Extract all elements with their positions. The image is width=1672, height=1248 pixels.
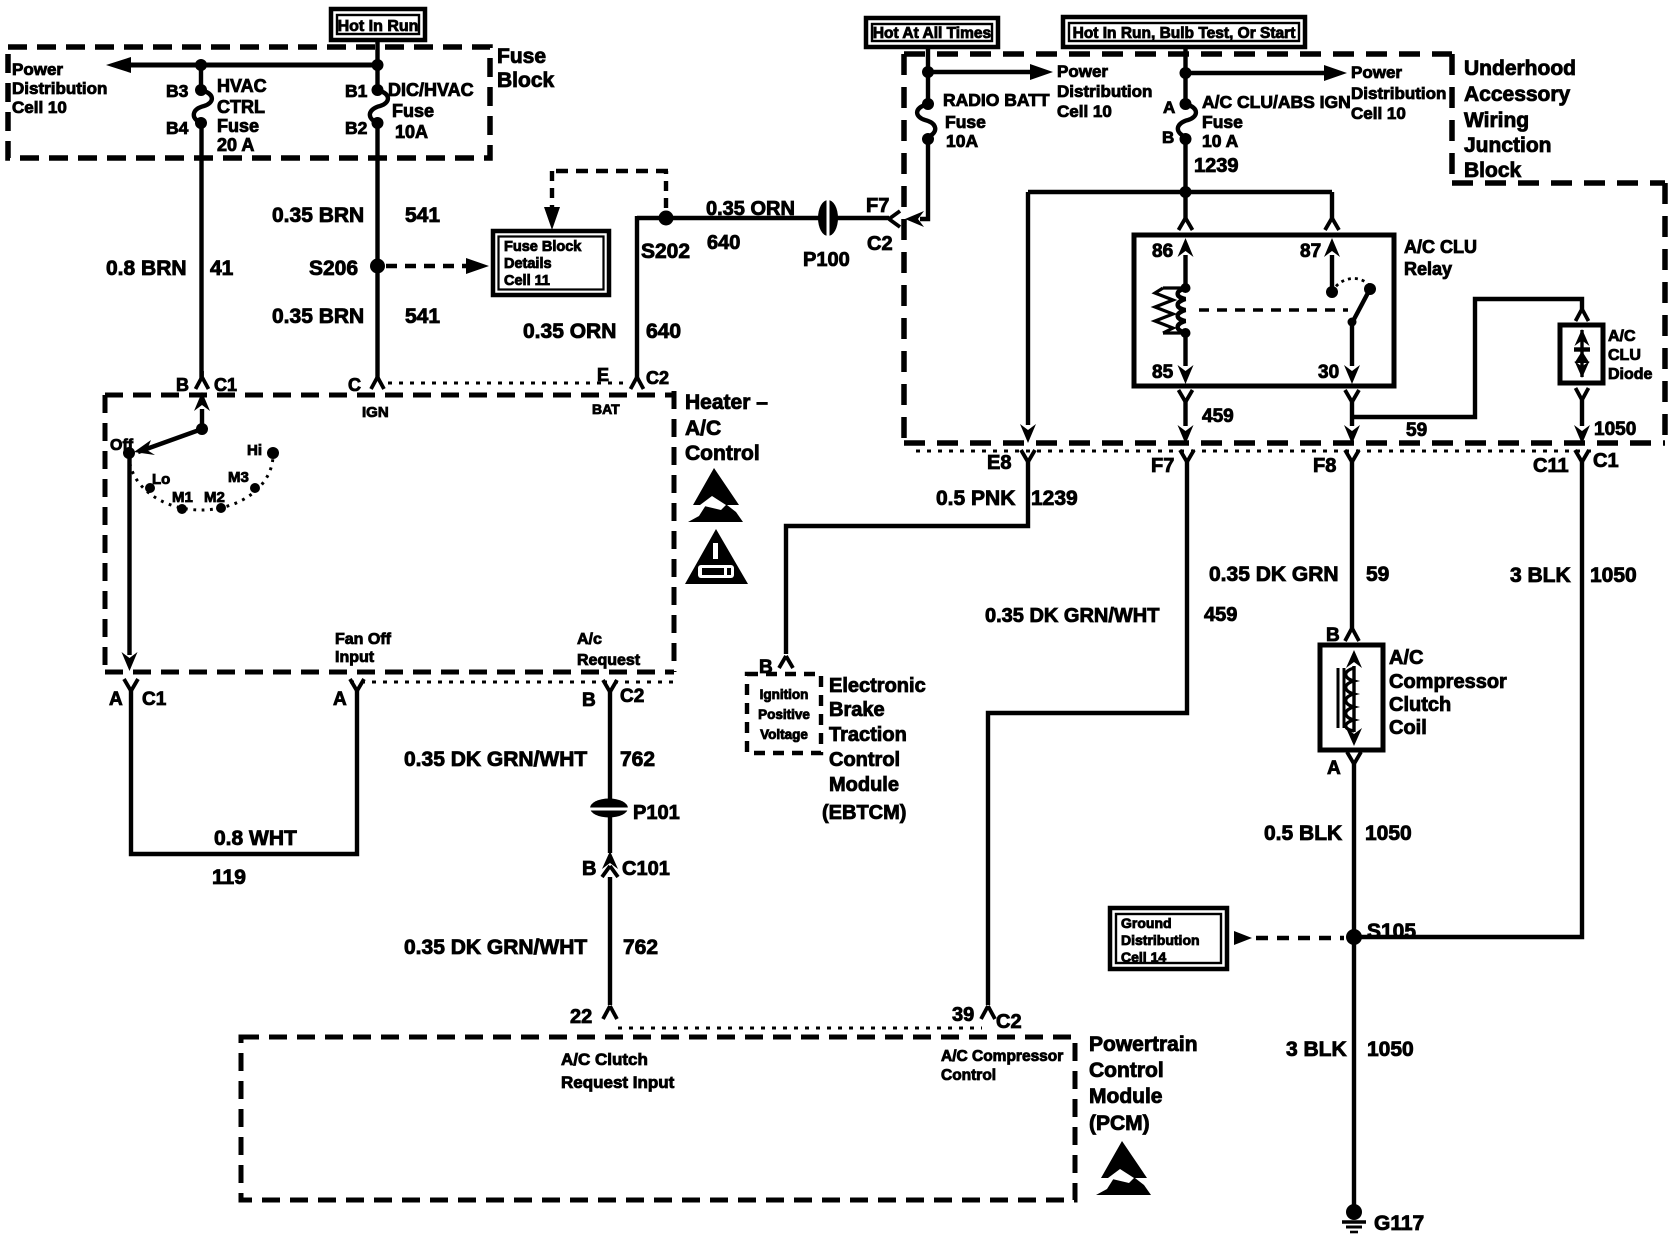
svg-text:Clutch: Clutch xyxy=(1389,694,1451,716)
svg-text:C11: C11 xyxy=(1533,455,1569,477)
switch position arc (dotted) xyxy=(129,455,273,510)
label A/C Clutch Request Input xyxy=(561,1050,675,1092)
relay pin 87 arrow into box xyxy=(1300,238,1340,292)
fuse A/C CLU/ABS IGN 10A xyxy=(1162,92,1351,151)
fuse HVAC CTRL 20A (B3-B4) xyxy=(166,65,267,155)
arrow to Power Distribution Cell 10 (right) xyxy=(1186,63,1447,123)
label Heater A/C Control xyxy=(685,391,768,465)
fuse RADIO BATT 10A xyxy=(917,90,1050,151)
svg-text:B: B xyxy=(1162,128,1174,147)
svg-text:30: 30 xyxy=(1318,362,1339,383)
label 0.35 DK GRN 59 xyxy=(1209,563,1389,586)
svg-text:C2: C2 xyxy=(620,686,644,707)
svg-text:3 BLK: 3 BLK xyxy=(1286,1038,1347,1061)
svg-text:Lo: Lo xyxy=(152,471,170,488)
svg-text:Power: Power xyxy=(12,60,63,79)
svg-text:G117: G117 xyxy=(1374,1212,1424,1235)
svg-text:C1: C1 xyxy=(142,689,167,710)
svg-text:Hot In Run: Hot In Run xyxy=(338,18,419,35)
relay pin 86 arrow into box xyxy=(1152,238,1194,287)
label Fuse Block xyxy=(497,45,555,92)
label A/c Request xyxy=(577,631,641,669)
fan switch wire from B C1 down to pivot xyxy=(200,409,204,429)
svg-text:Distribution: Distribution xyxy=(1121,932,1200,948)
inline connector C101 xyxy=(582,851,670,880)
label 0.35 ORN 640 (horizontal wire) xyxy=(706,198,795,254)
svg-text:85: 85 xyxy=(1152,362,1174,383)
svg-text:0.35 BRN: 0.35 BRN xyxy=(272,204,364,227)
svg-text:0.35 DK GRN/WHT: 0.35 DK GRN/WHT xyxy=(404,936,587,959)
wire 1050 from diode to C11 C1 with arrow xyxy=(1574,400,1636,444)
svg-text:Cell 10: Cell 10 xyxy=(1351,104,1406,123)
connector B C2 (fork) xyxy=(582,680,644,711)
fan switch pivot xyxy=(196,423,208,435)
splice S202 xyxy=(641,211,690,264)
label A/C Compressor Control xyxy=(941,1048,1063,1084)
label 0.5 PNK 1239 xyxy=(936,487,1078,510)
svg-text:M1: M1 xyxy=(172,489,193,506)
ESD sensitive symbol xyxy=(688,468,743,522)
label Fan Off Input xyxy=(335,631,392,666)
label Electronic Brake Traction Control Module (EBTCM) xyxy=(822,675,926,824)
svg-text:Wiring: Wiring xyxy=(1464,109,1529,132)
svg-text:Cell 10: Cell 10 xyxy=(12,98,67,117)
A/C CLU Diode xyxy=(1560,325,1653,383)
svg-text:Control: Control xyxy=(829,749,900,771)
svg-text:0.35 BRN: 0.35 BRN xyxy=(272,305,364,328)
svg-text:Request Input: Request Input xyxy=(561,1073,675,1092)
svg-text:RADIO BATT: RADIO BATT xyxy=(943,90,1050,110)
fuse DIC/HVAC 10A (B1-B2) xyxy=(345,65,474,142)
arrow to Power Distribution Cell 10 (left) xyxy=(928,62,1152,121)
svg-text:E: E xyxy=(597,365,609,385)
svg-text:C1: C1 xyxy=(1593,450,1619,472)
svg-text:C2: C2 xyxy=(867,233,893,255)
svg-text:Block: Block xyxy=(497,69,555,92)
svg-text:Diode: Diode xyxy=(1608,366,1653,383)
svg-text:Module: Module xyxy=(829,774,899,796)
svg-text:BAT: BAT xyxy=(592,401,620,417)
svg-text:A/C Clutch: A/C Clutch xyxy=(561,1050,648,1069)
svg-text:87: 87 xyxy=(1300,241,1321,262)
svg-text:(EBTCM): (EBTCM) xyxy=(822,802,906,824)
Hot In Run, Bulb Test, Or Start header box xyxy=(1063,17,1305,47)
svg-text:B2: B2 xyxy=(345,118,368,138)
svg-text:1050: 1050 xyxy=(1367,1038,1414,1061)
svg-text:Cell 11: Cell 11 xyxy=(504,273,550,289)
svg-text:C101: C101 xyxy=(622,858,670,880)
node: junction dot at HVAC fuse feed xyxy=(195,59,207,71)
svg-text:0.35 DK GRN/WHT: 0.35 DK GRN/WHT xyxy=(404,748,587,771)
svg-text:A: A xyxy=(333,689,347,710)
svg-text:Fuse Block: Fuse Block xyxy=(504,239,582,255)
svg-text:0.35 ORN: 0.35 ORN xyxy=(523,320,616,343)
svg-text:640: 640 xyxy=(646,320,681,343)
caution note symbol xyxy=(685,529,748,584)
A/C Compressor Clutch Coil box xyxy=(1320,645,1383,750)
pass-through grommet P100 xyxy=(803,199,850,271)
connector F7 C2 (sideways fork) xyxy=(866,195,900,255)
svg-text:F7: F7 xyxy=(866,195,889,217)
svg-text:Distribution: Distribution xyxy=(1057,82,1152,101)
svg-text:DIC/HVAC: DIC/HVAC xyxy=(388,80,474,100)
svg-text:B3: B3 xyxy=(166,81,189,101)
fork above A/C CLU diode xyxy=(1576,309,1589,321)
label 3 BLK 1050 (lower) xyxy=(1286,1038,1414,1061)
svg-text:Powertrain: Powertrain xyxy=(1089,1033,1198,1056)
svg-text:Fuse: Fuse xyxy=(1202,112,1243,132)
svg-text:A/C: A/C xyxy=(1389,647,1423,669)
connector face dotted line (bottom) xyxy=(350,681,674,684)
svg-text:Hi: Hi xyxy=(247,442,262,459)
svg-text:Distribution: Distribution xyxy=(12,79,107,98)
svg-text:Fuse: Fuse xyxy=(945,112,986,132)
wire stem to relay 86 xyxy=(1183,192,1187,218)
connector B into EBTCM (fork) xyxy=(759,656,793,678)
svg-text:0.8 BRN: 0.8 BRN xyxy=(106,257,187,280)
svg-text:Underhood: Underhood xyxy=(1464,57,1576,80)
svg-text:S202: S202 xyxy=(641,240,690,263)
dashed reference arrow Ground Distribution to S105 xyxy=(1234,931,1344,945)
svg-text:C2: C2 xyxy=(646,368,669,388)
svg-text:0.35 ORN: 0.35 ORN xyxy=(706,198,795,220)
wire 459 from relay 85 to F7 with arrow xyxy=(1178,402,1234,444)
connector face dotted line (bottom of junction block) xyxy=(916,450,1592,453)
wire: 0.35 BRN 541 from B2 down to C xyxy=(375,123,379,379)
dashed reference path from S202 to Fuse Block Details box xyxy=(544,171,668,230)
svg-text:Hot In Run, Bulb Test, Or Star: Hot In Run, Bulb Test, Or Start xyxy=(1073,25,1296,42)
wire 0.5 PNK 1239 from E8 to EBTCM B xyxy=(786,462,1028,654)
svg-text:A: A xyxy=(109,689,123,710)
svg-text:119: 119 xyxy=(212,866,246,889)
wire 0.8 WHT 119 loop A C1 to A xyxy=(131,691,357,854)
fork below diode xyxy=(1576,388,1589,400)
svg-text:B1: B1 xyxy=(345,81,368,101)
svg-text:10 A: 10 A xyxy=(1202,131,1239,151)
svg-text:S105: S105 xyxy=(1367,920,1416,943)
wire 0.35 DK GRN 59 from F8 down to coil B xyxy=(1350,462,1354,628)
wire: Hot At All Times stem to RADIO BATT fuse xyxy=(926,45,930,104)
wire 1239 branch down to E8 with arrow xyxy=(1020,192,1036,443)
label Powertrain Control Module (PCM) xyxy=(1089,1033,1198,1135)
label 0.35 DK GRN/WHT 762 (upper) xyxy=(404,748,655,771)
label 0.35 DK GRN/WHT 459 xyxy=(985,604,1237,627)
svg-text:C1: C1 xyxy=(214,375,237,395)
fork below relay pin 85 xyxy=(1179,390,1193,402)
svg-text:CLU: CLU xyxy=(1608,347,1641,364)
svg-text:Block: Block xyxy=(1464,159,1522,182)
svg-text:M3: M3 xyxy=(228,469,249,486)
relay A/C CLU box xyxy=(1134,235,1394,386)
connector face dotted line C1 (top) xyxy=(388,382,626,385)
svg-text:Power: Power xyxy=(1351,63,1402,82)
svg-text:B4: B4 xyxy=(166,118,189,138)
svg-text:0.5 BLK: 0.5 BLK xyxy=(1264,822,1342,845)
connector C (fork) xyxy=(348,371,389,421)
svg-text:1050: 1050 xyxy=(1594,419,1636,440)
wire: 0.8 BRN 41 from B4 down to B C1 xyxy=(199,123,203,379)
svg-text:A: A xyxy=(1163,98,1175,117)
svg-text:Accessory: Accessory xyxy=(1464,83,1571,106)
svg-text:C2: C2 xyxy=(996,1011,1022,1033)
label 0.35 BRN 541 (upper) xyxy=(272,204,440,227)
connector F7 (fork below boundary) xyxy=(1151,450,1194,477)
svg-text:59: 59 xyxy=(1366,563,1389,586)
svg-text:59: 59 xyxy=(1406,420,1427,441)
svg-text:Details: Details xyxy=(504,256,552,272)
svg-text:A/c: A/c xyxy=(577,631,602,648)
wire: Hot In Run Bulb Test stem to A/C CLU/ABS IGN fuse xyxy=(1183,45,1187,104)
svg-text:541: 541 xyxy=(405,204,440,227)
relay pin 30 wire and arrow out of box xyxy=(1318,322,1360,384)
label A/C CLU Relay xyxy=(1404,237,1477,279)
svg-text:Power: Power xyxy=(1057,62,1108,81)
wire 0.35 DK GRN/WHT 762 from B C2 down to P101 xyxy=(608,692,612,800)
svg-text:Control: Control xyxy=(1089,1059,1164,1082)
wire from RADIO BATT fuse down to F7 C2 xyxy=(920,139,928,219)
svg-text:Electronic: Electronic xyxy=(829,675,926,697)
svg-text:Input: Input xyxy=(335,649,375,666)
svg-text:Positive: Positive xyxy=(758,707,810,722)
wire 0.35 ORN 640 horizontal through P100 xyxy=(637,216,889,220)
connector A fork below coil xyxy=(1327,752,1361,779)
svg-text:1239: 1239 xyxy=(1194,155,1239,177)
svg-text:F7: F7 xyxy=(1151,455,1174,477)
contact M3 xyxy=(228,469,260,493)
label A/C Compressor Clutch Coil xyxy=(1389,647,1507,739)
wire from Off contact down to A C1 with arrow xyxy=(122,455,138,671)
svg-text:Coil: Coil xyxy=(1389,717,1427,739)
svg-text:B: B xyxy=(582,690,596,711)
connector E8 (fork below boundary) xyxy=(987,450,1035,474)
wire: top feed rail with left arrow to Power Distribution xyxy=(106,57,378,73)
Ignition Positive Voltage dashed boxlet xyxy=(747,674,821,753)
svg-text:S206: S206 xyxy=(309,257,358,280)
svg-text:B: B xyxy=(582,858,596,880)
connector B fork above coil xyxy=(1326,625,1359,646)
connector B C1 (fork) xyxy=(176,371,237,395)
underhood junction block dashed outline xyxy=(904,54,1665,443)
svg-text:41: 41 xyxy=(210,257,234,280)
clutch coil internals (arrow in, coil, arrow out) xyxy=(1338,650,1362,746)
svg-text:0.5 PNK: 0.5 PNK xyxy=(936,487,1015,510)
ESD sensitive symbol (PCM) xyxy=(1096,1141,1151,1195)
svg-text:Voltage: Voltage xyxy=(760,727,808,742)
connector pin 22 (fork into PCM) xyxy=(570,1006,617,1028)
label 0.5 BLK 1050 xyxy=(1264,822,1412,845)
svg-text:Hot At All Times: Hot At All Times xyxy=(873,25,991,42)
wire 1050 from C11 C1 down and over to S105 xyxy=(1354,462,1582,937)
label 3 BLK 1050 (upper) xyxy=(1510,564,1637,587)
wire P101 to C101 xyxy=(608,816,612,853)
svg-text:M2: M2 xyxy=(204,489,225,506)
fan switch blade to Off xyxy=(134,429,202,455)
svg-text:(PCM): (PCM) xyxy=(1089,1112,1150,1135)
relay coil (inductor with parallel resistor) xyxy=(1155,283,1191,338)
ground G117 xyxy=(1342,1204,1424,1235)
fuse block dashed box xyxy=(8,47,490,158)
label Power Distribution Cell 10 xyxy=(12,60,107,117)
connector A C1 (fork, below box) xyxy=(109,679,167,710)
dashed reference arrow S206 to Fuse Block Details xyxy=(386,258,489,274)
label Underhood Accessory Wiring Junction Block xyxy=(1464,57,1576,182)
svg-text:F8: F8 xyxy=(1313,455,1336,477)
heater box dashed outline xyxy=(105,391,674,672)
fork below relay pin 30 xyxy=(1345,390,1359,402)
svg-text:Traction: Traction xyxy=(829,724,907,746)
svg-text:A: A xyxy=(1327,758,1341,779)
svg-text:HVAC: HVAC xyxy=(217,76,267,96)
wire 1239 branch down to relay 87 xyxy=(1330,192,1334,218)
svg-text:Cell 14: Cell 14 xyxy=(1121,949,1166,965)
svg-text:Ignition: Ignition xyxy=(760,687,809,702)
svg-text:C: C xyxy=(348,375,361,395)
label 0.35 DK GRN/WHT 762 (lower) xyxy=(404,936,658,959)
contact M2 xyxy=(204,489,226,513)
svg-text:Brake: Brake xyxy=(829,699,885,721)
svg-text:A/C CLU/ABS IGN: A/C CLU/ABS IGN xyxy=(1202,92,1351,112)
Hot In Run header box xyxy=(331,9,425,40)
svg-text:P101: P101 xyxy=(633,802,680,824)
svg-text:Cell 10: Cell 10 xyxy=(1057,102,1112,121)
splice S206 xyxy=(309,257,385,280)
svg-text:762: 762 xyxy=(620,748,655,771)
svg-text:Fuse: Fuse xyxy=(497,45,546,68)
svg-text:A/C: A/C xyxy=(1608,328,1636,345)
node: junction dot at DIC/HVAC fuse feed xyxy=(372,59,384,71)
wire 3 BLK 1050 from S105 down to G117 xyxy=(1352,937,1356,1206)
Ground Distribution Cell 14 reference box xyxy=(1110,908,1227,969)
contact Hi xyxy=(247,442,279,459)
svg-text:A/C CLU: A/C CLU xyxy=(1404,237,1477,257)
node dot ign feed xyxy=(1180,67,1192,79)
contact Lo xyxy=(145,471,170,493)
svg-text:B: B xyxy=(176,375,189,395)
label 0.35 ORN 640 (vertical wire) xyxy=(523,320,681,343)
connector E C2 (fork) xyxy=(592,365,669,417)
pin arrow into C2 (pointing left) xyxy=(905,211,924,227)
label 0.8 BRN 41 xyxy=(106,257,234,280)
svg-text:Compressor: Compressor xyxy=(1389,671,1507,693)
svg-text:1050: 1050 xyxy=(1590,564,1637,587)
PCM dashed box xyxy=(241,1037,1075,1200)
svg-text:3 BLK: 3 BLK xyxy=(1510,564,1571,587)
svg-text:Fuse: Fuse xyxy=(392,101,434,121)
svg-text:Relay: Relay xyxy=(1404,259,1452,279)
connector pin 39 C2 (fork into PCM) xyxy=(952,1004,1022,1033)
svg-text:P100: P100 xyxy=(803,249,850,271)
connector face dotted line (PCM top) xyxy=(618,1027,982,1030)
connector F8 (fork below boundary) xyxy=(1313,450,1359,477)
svg-text:0.8 WHT: 0.8 WHT xyxy=(214,827,297,850)
svg-text:E8: E8 xyxy=(987,452,1011,474)
svg-text:0.35 DK GRN: 0.35 DK GRN xyxy=(1209,563,1339,586)
svg-text:Fan Off: Fan Off xyxy=(335,631,392,648)
node dot radio batt feed xyxy=(922,66,934,78)
wire: Hot In Run stem xyxy=(375,38,379,65)
svg-text:Distribution: Distribution xyxy=(1351,84,1446,103)
svg-text:A/C Compressor: A/C Compressor xyxy=(941,1048,1063,1065)
wire 0.35 ORN 640 vertical down to E C2 xyxy=(635,216,639,379)
svg-text:459: 459 xyxy=(1202,406,1234,427)
splice S105 xyxy=(1346,920,1416,945)
Hot At All Times header box xyxy=(866,18,998,47)
contact M1 xyxy=(172,489,193,514)
label 0.8 WHT 119 xyxy=(212,827,297,889)
wire 59 from relay 30 to F8 with arrow, and branch to diode xyxy=(1344,299,1582,444)
svg-text:Control: Control xyxy=(941,1067,996,1084)
Fuse Block Details Cell 11 reference box xyxy=(493,231,609,295)
svg-text:1239: 1239 xyxy=(1031,487,1078,510)
connector A (fork, fan off input) xyxy=(333,679,364,710)
svg-text:Request: Request xyxy=(577,652,641,669)
svg-text:20 A: 20 A xyxy=(217,135,254,155)
wire 1239 bus: fuse down, horizontal rail xyxy=(1028,139,1332,198)
connector C11 C1 (fork below boundary) xyxy=(1533,450,1619,477)
svg-text:0.35 DK GRN/WHT: 0.35 DK GRN/WHT xyxy=(985,605,1159,627)
svg-text:Junction: Junction xyxy=(1464,134,1552,157)
relay actuation dashed link xyxy=(1199,308,1348,311)
svg-text:640: 640 xyxy=(707,232,740,254)
svg-text:541: 541 xyxy=(405,305,440,328)
svg-text:CTRL: CTRL xyxy=(217,97,265,117)
wire 0.35 DK GRN/WHT 762 from C101 down to pin 22 xyxy=(608,877,612,1005)
svg-text:22: 22 xyxy=(570,1006,592,1028)
svg-text:Heater –: Heater – xyxy=(685,391,768,414)
svg-text:86: 86 xyxy=(1152,241,1173,262)
relay contact terminal fork 87 (above box) xyxy=(1325,218,1339,230)
svg-text:1050: 1050 xyxy=(1365,822,1412,845)
pin arrow up into B C1 from fan switch xyxy=(194,392,210,411)
wire 0.5 BLK 1050 from coil A down to S105 xyxy=(1352,764,1356,937)
svg-text:IGN: IGN xyxy=(362,404,389,421)
svg-text:Ground: Ground xyxy=(1121,915,1172,931)
wire 459 from F7 down and over to PCM pin 39 xyxy=(988,462,1187,1005)
svg-text:10A: 10A xyxy=(946,131,978,151)
svg-text:39: 39 xyxy=(952,1004,974,1026)
pass-through grommet P101 xyxy=(589,799,680,825)
relay pin 85 wire and arrow out of box xyxy=(1152,333,1194,384)
svg-text:459: 459 xyxy=(1204,604,1237,626)
svg-text:Fuse: Fuse xyxy=(217,116,259,136)
relay coil terminal fork 86 (above box) xyxy=(1179,218,1193,230)
svg-text:Off: Off xyxy=(110,437,134,454)
svg-text:10A: 10A xyxy=(395,122,428,142)
svg-text:A/C: A/C xyxy=(685,417,721,440)
contact Off xyxy=(110,437,135,459)
label 0.35 BRN 541 (lower) xyxy=(272,305,440,328)
svg-text:762: 762 xyxy=(623,936,658,959)
relay switch (87 contact, pivot, blade to 30) xyxy=(1326,278,1376,326)
svg-text:Module: Module xyxy=(1089,1085,1163,1108)
svg-text:Control: Control xyxy=(685,442,760,465)
